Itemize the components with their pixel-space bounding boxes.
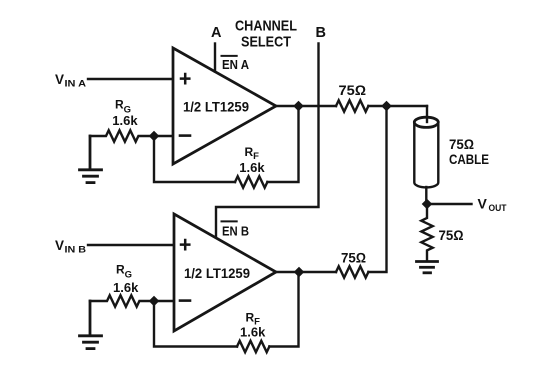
svg-text:EN A: EN A xyxy=(222,57,250,72)
svg-text:1/2 LT1259: 1/2 LT1259 xyxy=(183,100,249,115)
node B label xyxy=(316,25,326,41)
node VIN B label xyxy=(55,238,86,256)
svg-text:CABLE: CABLE xyxy=(449,151,489,167)
junction: U1 output / feedback node xyxy=(293,101,304,112)
svg-text:1.6k: 1.6k xyxy=(112,113,138,128)
value 1.6k (RG channel B) xyxy=(113,280,139,295)
resistor RG (channel B) with leads xyxy=(90,295,174,306)
label EN B (overline on EN) xyxy=(222,221,250,238)
svg-text:A: A xyxy=(211,25,222,41)
wire: VIN B input to U2 + xyxy=(88,244,174,246)
svg-text:SELECT: SELECT xyxy=(241,33,291,50)
value 1.6k (RF channel A) xyxy=(239,160,265,175)
junction: VOUT node xyxy=(422,199,433,210)
svg-text:V: V xyxy=(478,196,488,212)
svg-text:RG: RG xyxy=(116,263,132,281)
svg-text:75Ω: 75Ω xyxy=(341,249,366,265)
wire: VIN A input to U1 + xyxy=(88,78,173,80)
wire: U1 inverting input down to feedback run xyxy=(154,136,235,182)
svg-text:1/2 LT1259: 1/2 LT1259 xyxy=(184,266,250,281)
svg-text:OUT: OUT xyxy=(489,203,507,214)
svg-text:V: V xyxy=(55,238,64,253)
wire: RF (channel B) to U2 output node xyxy=(269,272,298,347)
value 1.6k (RF channel B) xyxy=(240,325,266,340)
label RF (channel B) xyxy=(246,311,261,328)
junction: U2 output / feedback node xyxy=(294,267,305,278)
wire: net B from label down, across to EN B pin of U2 xyxy=(216,44,319,239)
resistor 75 ohm termination (vertical) xyxy=(421,204,432,260)
wire: cable bottom to VOUT node xyxy=(425,187,427,204)
value 75 ohm (termination) xyxy=(439,227,464,243)
op-amp U2 (1/2 LT1259 channel B) xyxy=(174,214,276,331)
75 ohm coax cable (cylinder symbol) xyxy=(414,117,438,187)
value 1.6k (RG channel A) xyxy=(112,113,138,128)
svg-text:75Ω: 75Ω xyxy=(449,136,474,152)
junction: summing node to cable xyxy=(381,101,392,112)
svg-text:IN B: IN B xyxy=(65,245,87,256)
resistor RG (channel A) with leads xyxy=(90,130,173,141)
svg-text:IN A: IN A xyxy=(65,79,87,90)
wire: U2 output xyxy=(276,271,336,273)
op-amp U1 (1/2 LT1259 channel A) xyxy=(173,48,276,164)
label EN A (overline on EN) xyxy=(222,56,250,72)
svg-text:1.6k: 1.6k xyxy=(113,280,139,295)
svg-text:EN B: EN B xyxy=(222,223,249,238)
ground (RG channel A) xyxy=(80,136,102,183)
label RG (channel A) xyxy=(115,98,131,116)
node VIN A label xyxy=(55,72,86,90)
svg-text:CHANNEL: CHANNEL xyxy=(235,17,297,34)
value 75 ohm (channel B output resistor) xyxy=(341,249,366,265)
wire: 75 ohm to cable xyxy=(368,105,427,107)
resistor RF (channel A) xyxy=(235,176,267,187)
resistor 75 ohm (channel B output) xyxy=(336,266,368,277)
wire: RF (channel A) to U1 output node xyxy=(267,106,298,182)
node A label xyxy=(211,25,222,41)
label RF (channel A) xyxy=(245,145,260,162)
node VOUT label xyxy=(478,196,507,215)
svg-text:V: V xyxy=(55,72,64,87)
svg-text:1.6k: 1.6k xyxy=(239,160,265,175)
value 75 ohm (channel A output resistor) xyxy=(339,82,367,98)
resistor RF (channel B) xyxy=(237,341,269,352)
pin EN A tick on U1 xyxy=(214,44,216,72)
wire: VOUT stub xyxy=(427,203,472,205)
svg-text:B: B xyxy=(316,25,326,41)
wire: U1 output xyxy=(276,105,336,107)
junction: U2 inverting input node xyxy=(149,296,160,307)
label RG (channel B) xyxy=(116,263,132,281)
svg-text:75Ω: 75Ω xyxy=(439,227,464,243)
junction: U1 inverting input node xyxy=(149,131,160,142)
label 75 ohm CABLE xyxy=(449,136,489,167)
wire: channel B 75 ohm up to summing node xyxy=(368,106,386,272)
svg-text:1.6k: 1.6k xyxy=(240,325,266,340)
svg-text:75Ω: 75Ω xyxy=(339,82,367,98)
wire: U2 inverting input down to feedback run xyxy=(154,301,237,347)
ground (termination) xyxy=(417,262,438,273)
resistor 75 ohm (channel A output) xyxy=(336,100,368,111)
label CHANNEL SELECT xyxy=(235,17,297,50)
wire: down into cable top xyxy=(426,106,428,121)
ground (RG channel B) xyxy=(80,301,102,349)
